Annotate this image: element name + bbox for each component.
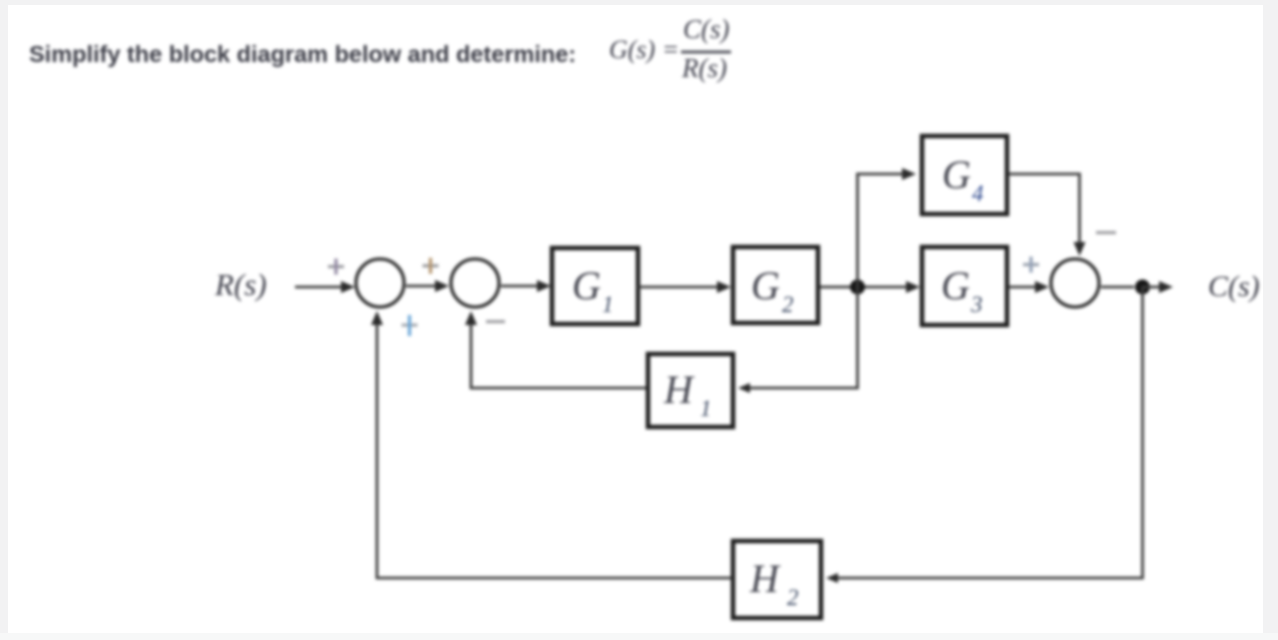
svg-text:G: G	[572, 263, 601, 308]
block G2	[733, 247, 818, 323]
svg-text:Simplify the block diagram bel: Simplify the block diagram below and det…	[29, 41, 576, 67]
svg-text:C(s): C(s)	[683, 14, 730, 44]
wire S2 to G1	[501, 285, 542, 288]
svg-text:R(s): R(s)	[681, 53, 727, 83]
wire S3 to output node B	[1101, 286, 1134, 289]
svg-text:1: 1	[602, 292, 614, 317]
sign - at S3 top input	[1096, 231, 1116, 234]
summing junction S2	[451, 259, 499, 307]
page gray border left	[0, 0, 8, 640]
svg-text:H: H	[663, 367, 695, 412]
summing junction S1	[356, 259, 404, 307]
sign + at S3 left input	[1023, 257, 1039, 273]
wire G2 to G3 through node A	[820, 286, 911, 289]
equation G(s)	[609, 14, 731, 83]
node B output junction dot	[1135, 280, 1150, 295]
wire node A down and left into H1	[745, 287, 858, 388]
svg-text:C(s): C(s)	[1208, 270, 1260, 303]
block G4	[922, 136, 1007, 214]
wire H1 output left and up into S2	[471, 320, 646, 388]
block H2	[733, 541, 821, 618]
svg-text:G(s) =: G(s) =	[609, 35, 679, 64]
wire R(s) to summing junction S1	[295, 286, 345, 289]
summing junction S3	[1051, 259, 1099, 307]
block H1	[648, 354, 733, 427]
sign + at S1 left input	[328, 259, 344, 275]
wire H2 output left and up into S1	[377, 320, 731, 578]
svg-text:G: G	[751, 263, 780, 308]
svg-text:4: 4	[972, 181, 984, 206]
svg-text:G: G	[942, 152, 971, 197]
sign + above wire S1-S2	[423, 258, 439, 274]
svg-text:R(s): R(s)	[214, 267, 267, 302]
wire G4 output down to summing junction S3	[1009, 174, 1080, 246]
page gray border right	[1263, 0, 1278, 640]
wire node B to C(s)	[1142, 286, 1163, 289]
page gray border bottom	[0, 633, 1278, 640]
wire G1 to G2	[638, 286, 722, 289]
page gray border top	[0, 0, 1278, 5]
wire S1 to S2	[406, 285, 440, 288]
sign - at S2 bottom input	[486, 320, 505, 323]
svg-text:G: G	[941, 263, 970, 308]
svg-text:1: 1	[700, 396, 712, 421]
svg-text:3: 3	[970, 292, 983, 317]
svg-text:H: H	[749, 556, 781, 601]
block G3	[922, 247, 1007, 325]
sign + (blue) at S1 bottom input	[402, 315, 418, 336]
svg-text:2: 2	[787, 585, 799, 610]
block G1	[552, 248, 638, 324]
wire node B down and left into H2	[833, 287, 1143, 578]
svg-text:2: 2	[782, 292, 794, 317]
node A junction dot after G2	[850, 280, 865, 295]
wire G3 to S3	[1009, 286, 1040, 289]
wire node A up to G4 input	[858, 174, 908, 287]
